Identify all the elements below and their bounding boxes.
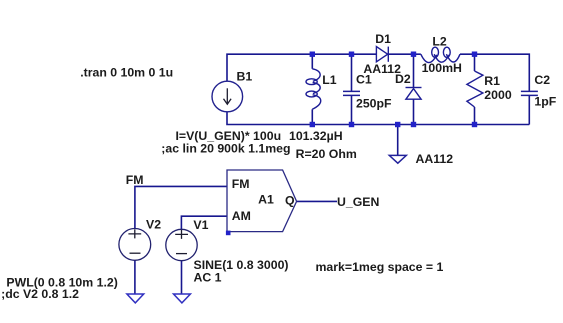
svg-text:;ac lin 20 900k 1.1meg: ;ac lin 20 900k 1.1meg [161, 141, 290, 155]
wire L1 bottom stub [311, 109, 313, 124]
ground AA112 [389, 155, 406, 163]
wire D2 bottom stub [413, 99, 415, 124]
wire FM net from V2 to A1 FM pin [135, 186, 227, 228]
svg-text:Q: Q [285, 193, 295, 207]
wire L2 right to R1 node to C2 top corner [460, 54, 529, 91]
current source B1 [212, 81, 243, 112]
ground below V2 [127, 294, 144, 303]
svg-text:AC 1: AC 1 [194, 270, 222, 284]
inductor L2 [421, 47, 460, 62]
svg-text:.tran 0 10m 0 1u: .tran 0 10m 0 1u [80, 65, 173, 79]
modulator block A1 [227, 170, 297, 232]
svg-text:FM: FM [232, 177, 250, 191]
junction at C1 top [349, 52, 354, 57]
voltage source V1 [166, 229, 197, 260]
diode D1 [376, 47, 388, 62]
wire R1 top stub [474, 54, 476, 71]
svg-text:;dc V2 0.8 1.2: ;dc V2 0.8 1.2 [1, 287, 79, 301]
wire V1 ground stem [181, 261, 183, 294]
wire bottom bus [227, 112, 529, 125]
wire V2 ground stem [134, 260, 136, 294]
junction at L1 top [310, 52, 315, 57]
svg-text:R1: R1 [484, 74, 500, 88]
svg-text:mark=1meg space = 1: mark=1meg space = 1 [316, 260, 444, 274]
resistor R1 [467, 71, 483, 107]
junction at ground node [395, 122, 400, 127]
wire AM from V1 to A1 AM pin [181, 216, 227, 229]
diode D2 [406, 88, 422, 100]
svg-text:V1: V1 [193, 218, 208, 232]
svg-text:FM: FM [126, 173, 144, 187]
svg-text:D2: D2 [395, 72, 411, 86]
svg-text:R=20 Ohm: R=20 Ohm [296, 147, 357, 161]
svg-text:2000: 2000 [484, 88, 512, 102]
A1 unconnected pin square [226, 231, 231, 236]
svg-text:100mH: 100mH [422, 61, 462, 75]
junction at C1 bottom [349, 122, 354, 127]
wire L1 top stub [311, 54, 313, 69]
wire C1 top stub [351, 54, 353, 91]
wire R1 bottom stub [474, 107, 476, 125]
junction at R1 bottom [472, 122, 477, 127]
svg-text:B1: B1 [237, 70, 253, 84]
wire ground stem [397, 125, 399, 156]
svg-text:A1: A1 [258, 193, 274, 207]
svg-text:D1: D1 [375, 32, 391, 46]
capacitor C2 [521, 91, 538, 95]
wire C1 bottom stub [351, 96, 353, 125]
inductor L1 [306, 69, 321, 110]
wire D1 cathode to node after D1 [388, 53, 421, 55]
junction at L1 bottom [310, 122, 315, 127]
wire D2 top stub [413, 54, 415, 87]
capacitor C1 [343, 91, 360, 95]
junction at L2/R1 node [472, 52, 477, 57]
svg-text:AA112: AA112 [416, 152, 454, 166]
svg-text:V2: V2 [146, 217, 161, 231]
wire C2 bottom stub [528, 96, 530, 125]
wire Q output to U_GEN [297, 200, 337, 202]
svg-text:U_GEN: U_GEN [337, 195, 379, 209]
wire top-left from B1 to D1 anode [227, 54, 376, 81]
voltage source V2 [119, 229, 151, 261]
svg-text:1pF: 1pF [534, 95, 556, 109]
junction at D1/L2/D2 node [411, 52, 416, 57]
svg-text:L2: L2 [432, 34, 447, 48]
ground below V1 [174, 294, 191, 303]
svg-text:AM: AM [232, 209, 251, 223]
svg-text:L1: L1 [322, 73, 337, 87]
svg-text:250pF: 250pF [356, 96, 392, 110]
svg-text:C2: C2 [534, 73, 550, 87]
junction at D2 bottom [411, 122, 416, 127]
svg-text:101.32µH: 101.32µH [289, 129, 343, 143]
